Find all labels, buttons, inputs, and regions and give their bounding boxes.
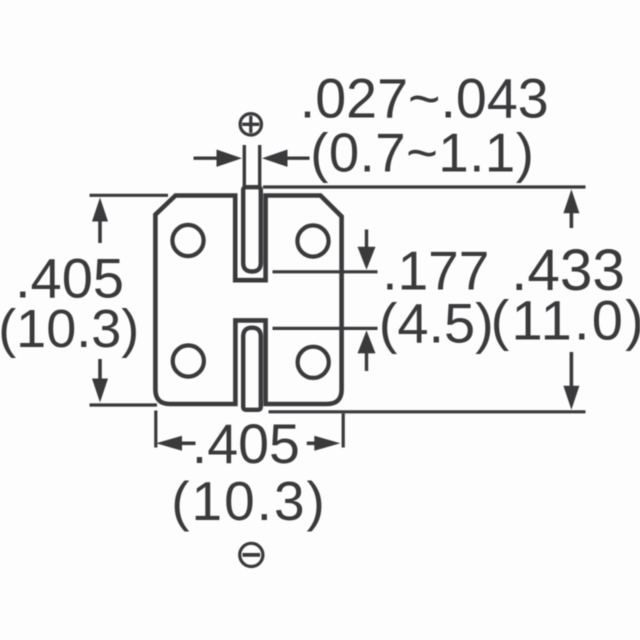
svg-text:(11.0): (11.0)	[491, 289, 640, 352]
svg-text:.027~.043: .027~.043	[300, 68, 549, 130]
svg-text:(10.3): (10.3)	[0, 299, 139, 359]
svg-text:(10.3): (10.3)	[171, 470, 327, 532]
svg-text:.405: .405	[192, 413, 300, 475]
svg-text:(0.7~1.1): (0.7~1.1)	[310, 123, 534, 184]
svg-text:(4.5): (4.5)	[379, 292, 494, 355]
